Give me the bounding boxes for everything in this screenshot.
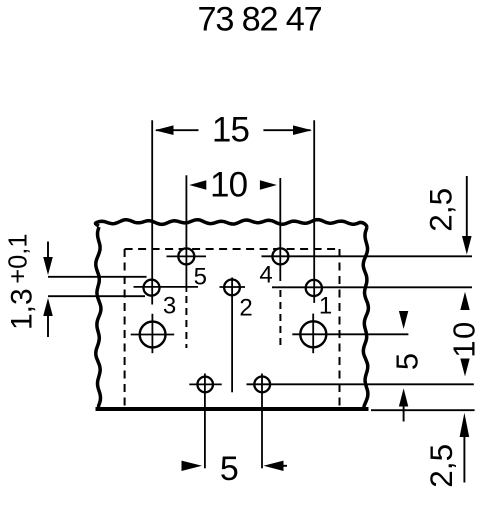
svg-text:10: 10 xyxy=(447,320,482,357)
hole 4 xyxy=(272,248,288,264)
dimension 2,5 top right: arrow pointing down xyxy=(466,176,468,236)
dashed component outline: top edge xyxy=(125,248,340,250)
mounting hole left xyxy=(140,322,166,348)
dimension 5 bottom: left arrow pointing right xyxy=(182,461,203,471)
dimension 10 right: lower arrowhead pointing down xyxy=(460,359,469,377)
bottom hole left horizontal crosshair xyxy=(189,383,221,385)
hole 5 horizontal crosshair xyxy=(167,255,207,257)
board outline: wavy left edge xyxy=(96,227,101,408)
dimension 15: left extension line through hole 3 xyxy=(151,120,153,304)
mounting hole left vertical crosshair xyxy=(151,314,153,353)
bottom hole right xyxy=(254,377,270,393)
svg-text:4: 4 xyxy=(259,262,272,289)
bottom edge extension line to right margin xyxy=(371,409,475,411)
mounting hole right vertical crosshair xyxy=(312,314,314,354)
row line through right mounting hole xyxy=(292,333,408,335)
hole 2 xyxy=(224,280,240,296)
dimension 10 top: left extension line through hole 5 xyxy=(185,175,187,292)
dimension 10 top: left arrowhead xyxy=(189,180,206,190)
bottom hole left xyxy=(197,377,213,393)
svg-text:2: 2 xyxy=(239,295,252,322)
svg-text:5: 5 xyxy=(220,450,239,488)
dashed component outline: left edge xyxy=(124,249,126,408)
mounting hole left horizontal crosshair xyxy=(131,334,175,336)
bottom hole left vertical extension xyxy=(204,374,206,469)
hole 3 xyxy=(144,280,160,296)
dashed centerline below hole 4 xyxy=(279,290,281,348)
svg-text:5: 5 xyxy=(194,263,207,290)
dimension 15: left arrow xyxy=(156,129,199,131)
svg-text:3: 3 xyxy=(163,292,176,319)
dimension 15: right extension line through hole 1 xyxy=(313,120,315,303)
hole 3 horizontal crosshair xyxy=(134,286,199,288)
svg-text:5: 5 xyxy=(390,353,425,370)
svg-text:2,5: 2,5 xyxy=(423,444,459,488)
hole 2 vertical centerline xyxy=(231,278,233,393)
dimension 10 right: upper arrowhead pointing up xyxy=(460,292,469,310)
dimension 10 top: right arrowhead xyxy=(260,180,277,190)
svg-text:10: 10 xyxy=(210,166,248,205)
svg-text:15: 15 xyxy=(212,110,249,149)
svg-text:1: 1 xyxy=(319,292,332,319)
board outline: bottom edge xyxy=(96,407,369,411)
bottom hole right vertical extension xyxy=(261,374,263,469)
dimension 1,3+0,1: upper tangent line xyxy=(48,276,147,278)
dimension 1,3+0,1: upper arrow pointing down xyxy=(47,242,49,259)
dimension 10 top: right extension line through hole 4 xyxy=(279,178,281,281)
dashed component outline: right edge xyxy=(339,249,341,408)
board outline: wavy top edge xyxy=(96,220,367,228)
row line through hole 4 to right margin xyxy=(262,255,473,257)
svg-text:2,5: 2,5 xyxy=(423,188,459,232)
dimension 15: right arrow xyxy=(263,129,310,131)
dimension 1,3+0,1: lower tangent line xyxy=(48,295,145,297)
dimension 5 right: upper arrow pointing down xyxy=(399,311,408,329)
dimension 1,3+0,1: lower arrow pointing up xyxy=(47,316,49,337)
board outline: wavy right edge xyxy=(363,228,368,410)
dimension 5 right: lower arrow pointing up xyxy=(403,405,405,422)
mounting hole right xyxy=(300,321,326,347)
hole 5 xyxy=(178,248,194,264)
row line through hole 1 to right margin xyxy=(272,286,472,288)
dashed centerline below hole 5 xyxy=(185,296,187,348)
dimension 2,5 bottom right: arrow pointing up xyxy=(463,436,465,483)
row line through bottom right hole to right margin xyxy=(247,383,474,385)
svg-text:73 82 47: 73 82 47 xyxy=(198,0,322,38)
hole 2 horizontal crosshair xyxy=(220,286,246,288)
dimension 5 bottom: right arrow pointing left xyxy=(264,461,284,471)
hole 1 xyxy=(306,280,322,296)
